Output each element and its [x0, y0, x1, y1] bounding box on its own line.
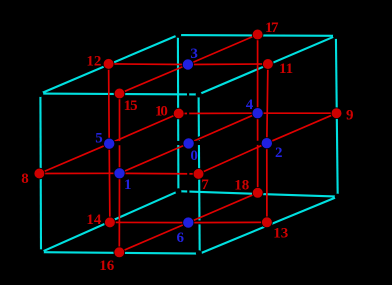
node 1 (blue): [114, 168, 125, 179]
wire bond 14-6-13: [110, 221, 267, 223]
wire bond 1-0-4: [120, 113, 258, 173]
wire bond 15-1-16: [118, 94, 120, 253]
node 2 (blue): [261, 138, 272, 149]
node 9 (red): [331, 108, 342, 119]
svg-text:18: 18: [234, 178, 249, 194]
svg-text:11: 11: [279, 61, 293, 77]
hidden corner atoms (black discs over cell corners): [37, 32, 340, 256]
svg-text:6: 6: [177, 230, 185, 246]
node 15 (red): [114, 88, 125, 99]
corner atom front-bottom-right: [196, 250, 202, 256]
node 16 (red): [114, 247, 125, 258]
svg-text:17: 17: [265, 20, 279, 36]
wire bond 12-5-14: [109, 64, 110, 223]
node 17 (red): [252, 29, 263, 40]
wire bond 11-2-13: [267, 64, 268, 222]
unit cell frame (cyan): [40, 35, 337, 254]
corner atom back-top-right: [333, 33, 339, 39]
wire bond 17-4-18: [257, 35, 259, 193]
hidden bond 3-0-6 (drawn black, erases crossings): [187, 65, 190, 223]
wire bond 12-3-11: [109, 63, 268, 66]
svg-text:2: 2: [275, 145, 283, 161]
wire bond 8-1-7: [39, 172, 198, 175]
node 7 (red): [193, 169, 204, 180]
wire bond 7-2-9: [199, 113, 337, 174]
cell edge front-top: [40, 93, 198, 96]
node 3 (blue): [182, 59, 193, 70]
wire bond 8-5-10: [39, 114, 178, 174]
black halo where bond 14-6-13 passes the front-right cell edge: [196, 220, 202, 224]
wire bond 10-4-9: [179, 112, 337, 114]
svg-text:14: 14: [86, 212, 102, 228]
node 13 (red): [262, 217, 273, 228]
svg-text:4: 4: [246, 97, 254, 113]
cell edge bottom-left depth: [41, 191, 178, 252]
svg-text:8: 8: [21, 171, 29, 187]
cell edge bottom-right depth: [200, 197, 338, 254]
wire bond 16-6-18: [119, 193, 257, 253]
cell edge front-left: [39, 94, 42, 253]
cell edge back-right: [336, 36, 338, 197]
cell edge top-right depth: [199, 36, 336, 95]
cell edge back-bottom: [178, 191, 337, 196]
svg-text:0: 0: [190, 148, 198, 164]
black halo where bond 1-0-4 passes the front-right cell edge: [196, 137, 202, 140]
corner atom front-top-left: [37, 91, 43, 97]
cell edge front-bottom: [41, 252, 200, 253]
node 11 (red): [263, 59, 274, 70]
svg-text:1: 1: [124, 177, 132, 193]
cell edge top-left depth: [40, 35, 178, 94]
node 8 (red): [34, 168, 45, 179]
corner atom back-bottom-right: [335, 194, 341, 200]
svg-text:16: 16: [99, 258, 115, 274]
svg-text:7: 7: [201, 177, 209, 193]
svg-text:13: 13: [273, 226, 288, 242]
node 18 (red): [252, 187, 263, 198]
node 4 (blue): [252, 108, 263, 119]
node 0 (blue, body center): [183, 138, 194, 149]
node 5 (blue): [104, 138, 115, 149]
svg-text:3: 3: [190, 46, 198, 62]
corner atom back-bottom-left: [175, 188, 181, 194]
svg-text:5: 5: [95, 131, 103, 147]
cell edge back-left: [177, 35, 180, 191]
atoms: [34, 29, 342, 258]
hidden bond 5-0-2 (drawn black, erases crossings): [109, 141, 267, 146]
corner atom front-bottom-left: [38, 249, 44, 255]
cell edge front-right: [199, 94, 200, 253]
node 10 (red): [173, 108, 184, 119]
svg-text:12: 12: [86, 54, 101, 70]
node 14 (red): [105, 217, 116, 228]
svg-text:15: 15: [124, 98, 138, 114]
corner atom back-top-left: [175, 32, 181, 38]
svg-text:10: 10: [155, 104, 168, 120]
red bond lines: [39, 35, 336, 253]
cell edge back-top: [178, 34, 336, 37]
node 6 (blue): [183, 217, 194, 228]
corner atom front-top-right: [196, 92, 202, 98]
svg-text:9: 9: [346, 108, 354, 124]
node 12 (red): [103, 59, 114, 70]
wire bond 15-3-17: [120, 35, 258, 94]
